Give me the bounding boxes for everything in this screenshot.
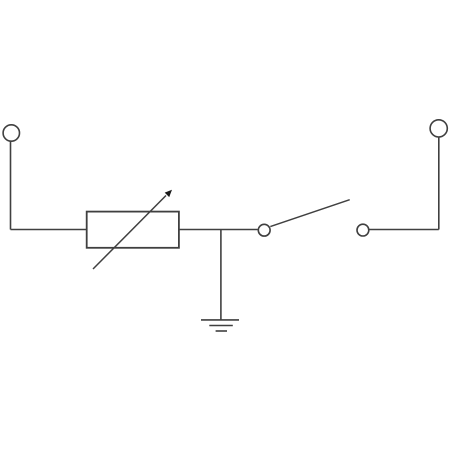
terminal T1 (top-left open circle) [3,125,19,141]
wire (resistor right to switch pole, with junction) [179,229,258,231]
resistor R1 (variable, rectangle body) [87,212,179,248]
wire (T1 down to horizontal run) [10,142,12,230]
wire (riser up to T2) [438,137,440,230]
wire (horizontal into resistor left) [11,229,87,231]
switch S1 lever (open blade) [270,200,349,227]
ground symbol [201,320,239,331]
switch S1 pole contact (left open circle) [258,224,270,236]
terminal T2 (top-right open circle) [430,120,447,137]
resistor R1 adjustment arrow (diagonal with filled head) [93,190,172,269]
switch S1 throw contact (right open circle) [357,224,369,236]
wire (junction down to ground) [220,230,222,320]
wire (switch throw to right riser) [369,229,439,231]
